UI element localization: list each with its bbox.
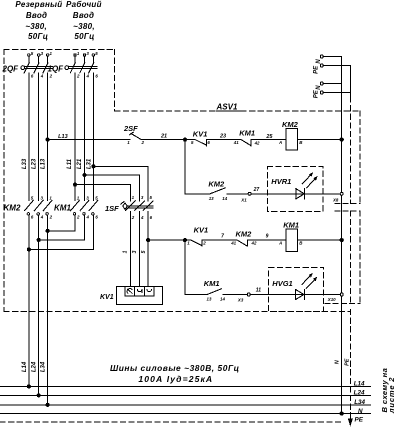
1QF linkage bar bbox=[69, 66, 97, 68]
svg-text:2: 2 bbox=[202, 241, 206, 246]
svg-text:13: 13 bbox=[209, 196, 214, 201]
svg-text:Резервный: Резервный bbox=[15, 0, 62, 9]
svg-text:23: 23 bbox=[219, 133, 226, 139]
wire KM1 coil to N bbox=[298, 239, 342, 241]
supply terminal N (top, input 1) bbox=[320, 55, 323, 58]
svg-text:6: 6 bbox=[31, 214, 34, 219]
switch 1SF bbox=[105, 195, 153, 220]
svg-text:1: 1 bbox=[132, 195, 135, 200]
contactor coil KM2 bbox=[278, 120, 303, 150]
svg-text:6: 6 bbox=[31, 74, 34, 79]
svg-text:3: 3 bbox=[141, 195, 144, 200]
tap wire from L31 to 1SF pole3 bbox=[93, 166, 148, 201]
svg-text:L34: L34 bbox=[354, 399, 365, 406]
svg-text:1: 1 bbox=[50, 51, 53, 56]
svg-text:5: 5 bbox=[95, 51, 98, 56]
svg-text:4: 4 bbox=[86, 74, 90, 79]
wire 11 bbox=[223, 294, 247, 296]
drop wire from node 21 to KM2 aux contact bbox=[185, 140, 210, 194]
wire 25 bbox=[251, 139, 286, 141]
svg-text:Ввод: Ввод bbox=[73, 11, 94, 20]
terminal X3 bbox=[247, 293, 250, 296]
svg-text:1: 1 bbox=[123, 250, 129, 253]
svg-text:1: 1 bbox=[77, 51, 80, 56]
lamp unit HVG1 dashed box bbox=[269, 267, 324, 311]
svg-text:KV1: KV1 bbox=[194, 226, 209, 235]
lamp unit HVR1 dashed box bbox=[267, 166, 322, 211]
power bus L34 bbox=[0, 404, 370, 406]
contactor KM2 main contacts bbox=[4, 196, 53, 220]
LED HVR1 bbox=[296, 173, 317, 199]
svg-text:Х1: Х1 bbox=[240, 198, 247, 203]
svg-text:листе 2: листе 2 bbox=[387, 377, 396, 414]
power bus N bbox=[0, 413, 370, 415]
svg-text:L24: L24 bbox=[354, 390, 365, 397]
node at 2SF/KV1 junction bbox=[183, 138, 186, 141]
svg-text:KM2: KM2 bbox=[236, 229, 253, 238]
header text: reserve input column bbox=[15, 0, 62, 41]
svg-text:L31: L31 bbox=[87, 158, 93, 169]
svg-text:7: 7 bbox=[221, 234, 224, 240]
svg-text:4: 4 bbox=[40, 74, 44, 79]
wire KM2 coil to N bbox=[298, 139, 342, 141]
contact KM1 41-42 (rung 1) bbox=[233, 129, 260, 147]
svg-text:5: 5 bbox=[31, 51, 34, 56]
1QF pole 2 bbox=[83, 54, 86, 57]
strip separator dashes bbox=[325, 203, 360, 303]
svg-text:KM1: KM1 bbox=[204, 279, 220, 288]
svg-text:50Гц: 50Гц bbox=[28, 32, 48, 41]
svg-text:Х8: Х8 bbox=[332, 197, 339, 202]
svg-text:B: B bbox=[299, 241, 303, 246]
supply terminal N (top, input 2) bbox=[320, 82, 323, 85]
KM1 pole 1 bbox=[71, 200, 80, 210]
2QF pole 2 bbox=[37, 54, 40, 57]
svg-text:3: 3 bbox=[41, 51, 44, 56]
svg-text:2: 2 bbox=[49, 74, 53, 79]
KM2 pole 2 bbox=[34, 200, 43, 210]
wire X3 to lamp bbox=[251, 294, 340, 296]
svg-text:6: 6 bbox=[95, 74, 98, 79]
relay contact KV1 (rung 2) bbox=[187, 226, 208, 247]
svg-text:42: 42 bbox=[254, 140, 260, 145]
contact KM1 13-14 bbox=[204, 279, 226, 302]
svg-text:ASV1: ASV1 bbox=[216, 103, 238, 112]
contact KM2 41-42 (rung 2) bbox=[230, 229, 257, 246]
wire L31 bbox=[92, 73, 94, 200]
1QF pole 3 bbox=[92, 54, 95, 57]
svg-text:11: 11 bbox=[256, 287, 261, 293]
svg-text:2: 2 bbox=[76, 214, 80, 219]
svg-text:14: 14 bbox=[222, 196, 227, 201]
svg-text:Ввод: Ввод bbox=[26, 11, 47, 20]
svg-text:5: 5 bbox=[150, 195, 153, 200]
PE arrow head bbox=[348, 419, 352, 426]
2QF pole 3 bbox=[46, 54, 49, 57]
svg-text:PE: PE bbox=[313, 65, 319, 74]
KM1 pole 2 bbox=[80, 200, 89, 210]
tap wire from L21 to 1SF pole2 bbox=[85, 175, 140, 201]
2QF pole 1 bbox=[28, 54, 31, 57]
svg-text:~380,: ~380, bbox=[73, 22, 95, 31]
svg-text:PE: PE bbox=[313, 89, 319, 98]
voltage relay KV1 box bbox=[100, 286, 162, 304]
KM1 output crossover wires bbox=[48, 216, 75, 231]
2QF linkage bar bbox=[25, 66, 53, 68]
wire 7 bbox=[202, 239, 237, 241]
svg-text:41: 41 bbox=[233, 140, 239, 145]
svg-text:L11: L11 bbox=[67, 158, 73, 169]
svg-text:PE: PE bbox=[344, 358, 350, 366]
contactor coil KM1 bbox=[278, 220, 303, 251]
1QF handle bbox=[65, 66, 69, 70]
svg-text:3: 3 bbox=[132, 250, 138, 253]
header text: working input column bbox=[66, 0, 102, 41]
1SF pole 3 bbox=[143, 201, 153, 211]
svg-text:1QF: 1QF bbox=[48, 64, 65, 73]
LED HVG1 bbox=[296, 274, 317, 300]
1SF output wires to KV1 bbox=[129, 211, 131, 286]
wire L33 (2QF pole1 down to KM2) bbox=[28, 73, 30, 200]
relay contact KV1 (rung 1) bbox=[191, 129, 210, 145]
wire 23 bbox=[206, 139, 241, 141]
svg-text:50Гц: 50Гц bbox=[74, 32, 94, 41]
svg-text:HVG1: HVG1 bbox=[272, 279, 292, 288]
svg-text:25: 25 bbox=[265, 134, 273, 140]
svg-text:Х10: Х10 bbox=[327, 297, 336, 302]
circuit breaker 1QF bbox=[48, 51, 99, 78]
svg-text:A: A bbox=[278, 241, 282, 246]
svg-text:5: 5 bbox=[191, 140, 194, 145]
supply terminal PE (top, input 1) bbox=[320, 64, 323, 67]
KM2 pole 1 bbox=[25, 200, 34, 210]
wire L13 bbox=[47, 73, 49, 200]
svg-text:2SF: 2SF bbox=[123, 124, 138, 133]
svg-text:N: N bbox=[316, 85, 322, 90]
terminal X8 on N bus bbox=[340, 192, 343, 195]
svg-text:1: 1 bbox=[127, 140, 130, 145]
svg-text:L33: L33 bbox=[22, 158, 28, 169]
supply terminal PE (top, input 2) bbox=[320, 91, 323, 94]
svg-text:Х3: Х3 bbox=[237, 298, 244, 303]
power bus L24 bbox=[0, 394, 370, 396]
svg-text:A: A bbox=[278, 140, 282, 145]
svg-text:L23: L23 bbox=[31, 158, 37, 169]
power bus L14 bbox=[0, 386, 370, 388]
circuit breaker 2QF bbox=[2, 51, 53, 78]
svg-text:L24: L24 bbox=[31, 361, 37, 372]
svg-text:KM1: KM1 bbox=[239, 129, 255, 138]
1SF linkage bar bbox=[127, 206, 153, 208]
svg-text:HVR1: HVR1 bbox=[271, 177, 291, 186]
KM2 pole 3 bbox=[43, 200, 52, 210]
svg-text:KM2: KM2 bbox=[208, 179, 225, 188]
svg-text:L21: L21 bbox=[77, 158, 83, 169]
KM1 pole 3 bbox=[89, 200, 98, 210]
svg-text:KM1: KM1 bbox=[54, 204, 71, 213]
KM2 output wires down to power buses bbox=[28, 216, 30, 387]
svg-text:2: 2 bbox=[76, 74, 80, 79]
N bus vertical wire bbox=[341, 57, 343, 414]
svg-text:KV1: KV1 bbox=[193, 129, 208, 138]
svg-text:4: 4 bbox=[140, 215, 144, 220]
svg-text:~380,: ~380, bbox=[25, 22, 47, 31]
contact KM2 13-14 bbox=[208, 179, 227, 201]
svg-text:KM2: KM2 bbox=[4, 204, 21, 213]
svg-text:6: 6 bbox=[95, 214, 98, 219]
svg-text:L34: L34 bbox=[41, 361, 47, 372]
KV1 cell marks bbox=[127, 289, 132, 294]
svg-text:L13: L13 bbox=[41, 158, 47, 169]
switch 2SF bbox=[123, 124, 145, 145]
svg-text:1SF: 1SF bbox=[105, 204, 119, 213]
svg-text:Шины силовые ~380В, 50Гц: Шины силовые ~380В, 50Гц bbox=[110, 363, 240, 373]
contactor KM1 main contacts bbox=[54, 196, 98, 220]
svg-text:L14: L14 bbox=[22, 361, 28, 372]
drop wire to KM1 aux contact bbox=[185, 240, 207, 294]
svg-text:KM1: KM1 bbox=[283, 220, 299, 229]
ASV1 enclosure dashed outline bbox=[4, 50, 360, 312]
svg-text:27: 27 bbox=[253, 187, 260, 193]
svg-text:L14: L14 bbox=[354, 380, 365, 387]
svg-text:100А Iуд=25кА: 100А Iуд=25кА bbox=[138, 374, 213, 384]
svg-text:2: 2 bbox=[141, 140, 145, 145]
wire 21 bbox=[141, 139, 195, 141]
svg-text:B: B bbox=[299, 140, 303, 145]
wire L11 (1QF pole1 down to KM1) bbox=[74, 73, 76, 200]
svg-text:KV1: KV1 bbox=[100, 294, 114, 301]
terminal strip dashed column bbox=[359, 111, 361, 303]
control rung 1: tap from L13 bbox=[48, 139, 130, 141]
svg-text:PE: PE bbox=[355, 416, 364, 423]
svg-text:L13: L13 bbox=[58, 134, 67, 140]
svg-text:2: 2 bbox=[49, 214, 53, 219]
svg-text:14: 14 bbox=[220, 297, 225, 302]
wire L21 bbox=[84, 73, 86, 200]
svg-text:Рабочий: Рабочий bbox=[66, 0, 102, 9]
wire X1 to lamp bbox=[251, 193, 340, 195]
svg-text:4: 4 bbox=[86, 214, 90, 219]
svg-text:N: N bbox=[316, 59, 322, 64]
svg-text:2: 2 bbox=[131, 215, 135, 220]
wire L23 bbox=[38, 73, 40, 200]
svg-text:N: N bbox=[334, 359, 340, 364]
wire 9 bbox=[248, 239, 287, 241]
svg-text:2QF: 2QF bbox=[2, 64, 20, 73]
svg-text:41: 41 bbox=[230, 241, 236, 246]
1SF handle diamond bbox=[121, 202, 128, 210]
2QF handle bbox=[21, 66, 25, 70]
svg-text:3: 3 bbox=[86, 51, 89, 56]
control rung 2: from 1SF pole3 bbox=[148, 239, 191, 241]
power bus PE dashed bbox=[0, 421, 344, 423]
svg-text:42: 42 bbox=[251, 241, 257, 246]
svg-text:21: 21 bbox=[160, 134, 167, 140]
svg-text:9: 9 bbox=[266, 234, 269, 240]
1SF pole 2 bbox=[135, 201, 145, 211]
svg-text:13: 13 bbox=[207, 297, 212, 302]
svg-text:1: 1 bbox=[187, 241, 190, 246]
1SF pole 1 bbox=[126, 201, 136, 211]
wire 27 bbox=[227, 193, 248, 195]
terminal X10 on N bus bbox=[340, 293, 343, 296]
svg-text:6: 6 bbox=[207, 140, 210, 145]
cabinet ASV1 label bbox=[216, 103, 242, 112]
svg-text:6: 6 bbox=[150, 215, 153, 220]
svg-text:N: N bbox=[358, 408, 363, 415]
tap wire from L11 to 1SF pole1 bbox=[75, 185, 130, 202]
svg-text:4: 4 bbox=[40, 214, 44, 219]
terminal X1 bbox=[248, 192, 251, 195]
1QF pole 1 bbox=[74, 54, 77, 57]
svg-text:5: 5 bbox=[141, 250, 147, 253]
PE dashed vertical wire bbox=[349, 97, 351, 419]
